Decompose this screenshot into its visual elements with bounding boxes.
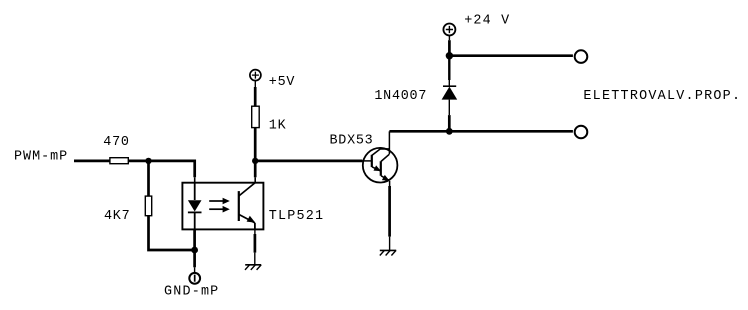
svg-text:1K: 1K xyxy=(269,118,287,133)
wire base rail to BDX53 xyxy=(255,160,362,163)
led triangle xyxy=(188,200,202,211)
ground opto emitter xyxy=(245,265,261,270)
node PWM-mP label xyxy=(14,149,68,164)
wire +24V symbol to top rail junction xyxy=(448,36,450,56)
power +24V xyxy=(443,14,510,36)
phototransistor base bar xyxy=(238,191,240,221)
led cathode bar xyxy=(188,211,202,213)
terminal GND-mP xyxy=(164,273,219,300)
light arrow top xyxy=(209,200,223,202)
transistor BDX53 xyxy=(330,134,398,183)
terminal elettrovalvola + xyxy=(575,50,588,63)
svg-text:+24 V: +24 V xyxy=(464,14,510,29)
node junction PWM/470/4K7 xyxy=(145,158,151,164)
svg-text:+5V: +5V xyxy=(269,75,295,90)
resistor 470 xyxy=(103,135,129,164)
power +5V xyxy=(250,70,295,91)
led cathode stub xyxy=(194,213,196,230)
resistor 4K7 xyxy=(104,196,152,224)
node junction diode/bottom rail xyxy=(446,128,453,135)
wire BDX53 collector to bottom rail xyxy=(388,131,390,154)
wire opto emitter to ground xyxy=(254,229,256,264)
phototransistor emitter xyxy=(239,214,255,223)
Q1 collector xyxy=(372,149,390,156)
Q2 base bar xyxy=(380,161,382,176)
resistor 1K xyxy=(252,106,287,133)
wire diode cathode up to +24V rail xyxy=(448,56,450,86)
svg-text:BDX53: BDX53 xyxy=(330,134,374,149)
wire +5V to base junction through 1K xyxy=(254,81,256,161)
wire bottom rail collector net xyxy=(389,130,573,133)
svg-text:PWM-mP: PWM-mP xyxy=(14,149,68,164)
Q1 emitter xyxy=(372,167,381,171)
ground BDX53 emitter xyxy=(380,250,396,255)
wire top rail xyxy=(449,54,573,57)
wire input PWM to junction xyxy=(74,160,149,163)
terminal elettrovalvola - xyxy=(575,126,588,139)
svg-text:4K7: 4K7 xyxy=(104,209,130,224)
node ELETTROVALV.PROP. label xyxy=(583,89,741,104)
svg-text:TLP521: TLP521 xyxy=(269,209,324,224)
phototransistor collector xyxy=(239,183,255,196)
svg-text:1N4007: 1N4007 xyxy=(374,89,427,104)
Q2 emitter xyxy=(381,176,389,181)
diode 1N4007 xyxy=(374,86,457,104)
led anode stub xyxy=(194,183,196,200)
wire BDX53 emitter to ground xyxy=(389,181,391,250)
node junction 1K/base/opto xyxy=(252,158,258,164)
node junction +24V/diode/rail xyxy=(446,52,453,59)
wire junction into optocoupler collector xyxy=(254,161,257,184)
optocoupler TLP521 xyxy=(182,183,324,230)
svg-text:GND-mP: GND-mP xyxy=(164,284,219,299)
wire junction down through 4K7 to bottom rail xyxy=(149,161,195,250)
wire LED cathode to GND-mP terminal xyxy=(193,229,196,272)
Q1 base bar xyxy=(371,155,373,167)
wire diode anode down to bottom rail xyxy=(448,100,450,132)
svg-text:ELETTROVALV.PROP.: ELETTROVALV.PROP. xyxy=(583,89,741,104)
node junction bottom rail xyxy=(191,247,198,254)
base lead xyxy=(362,160,372,162)
svg-text:470: 470 xyxy=(103,135,129,150)
light arrow bottom xyxy=(209,208,223,210)
Q2 collector xyxy=(381,154,389,161)
wire junction to LED anode xyxy=(149,161,195,184)
